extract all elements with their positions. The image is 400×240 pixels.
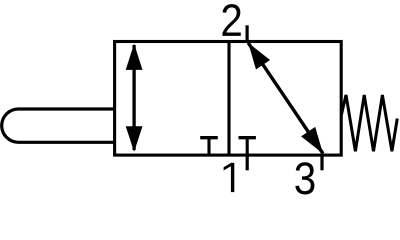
valve body (2-position frame) <box>115 42 342 156</box>
port 2 stub <box>246 25 249 41</box>
port label 2 <box>222 4 240 36</box>
spring return <box>341 95 397 151</box>
port label 3 <box>295 162 314 194</box>
blocked port symbol (left position) <box>200 138 218 155</box>
push-button plunger actuator <box>2 109 115 142</box>
flow arrow 2 to 3 (right position, double-headed diagonal) <box>248 43 323 154</box>
flow arrow left position (double-headed, vertical) <box>126 44 143 152</box>
port 3 stub <box>320 155 323 170</box>
blocked port symbol at port 1 (right position) <box>239 138 256 155</box>
position divider <box>227 42 230 156</box>
port label 1 <box>224 163 235 192</box>
port 1 stub <box>246 155 249 170</box>
